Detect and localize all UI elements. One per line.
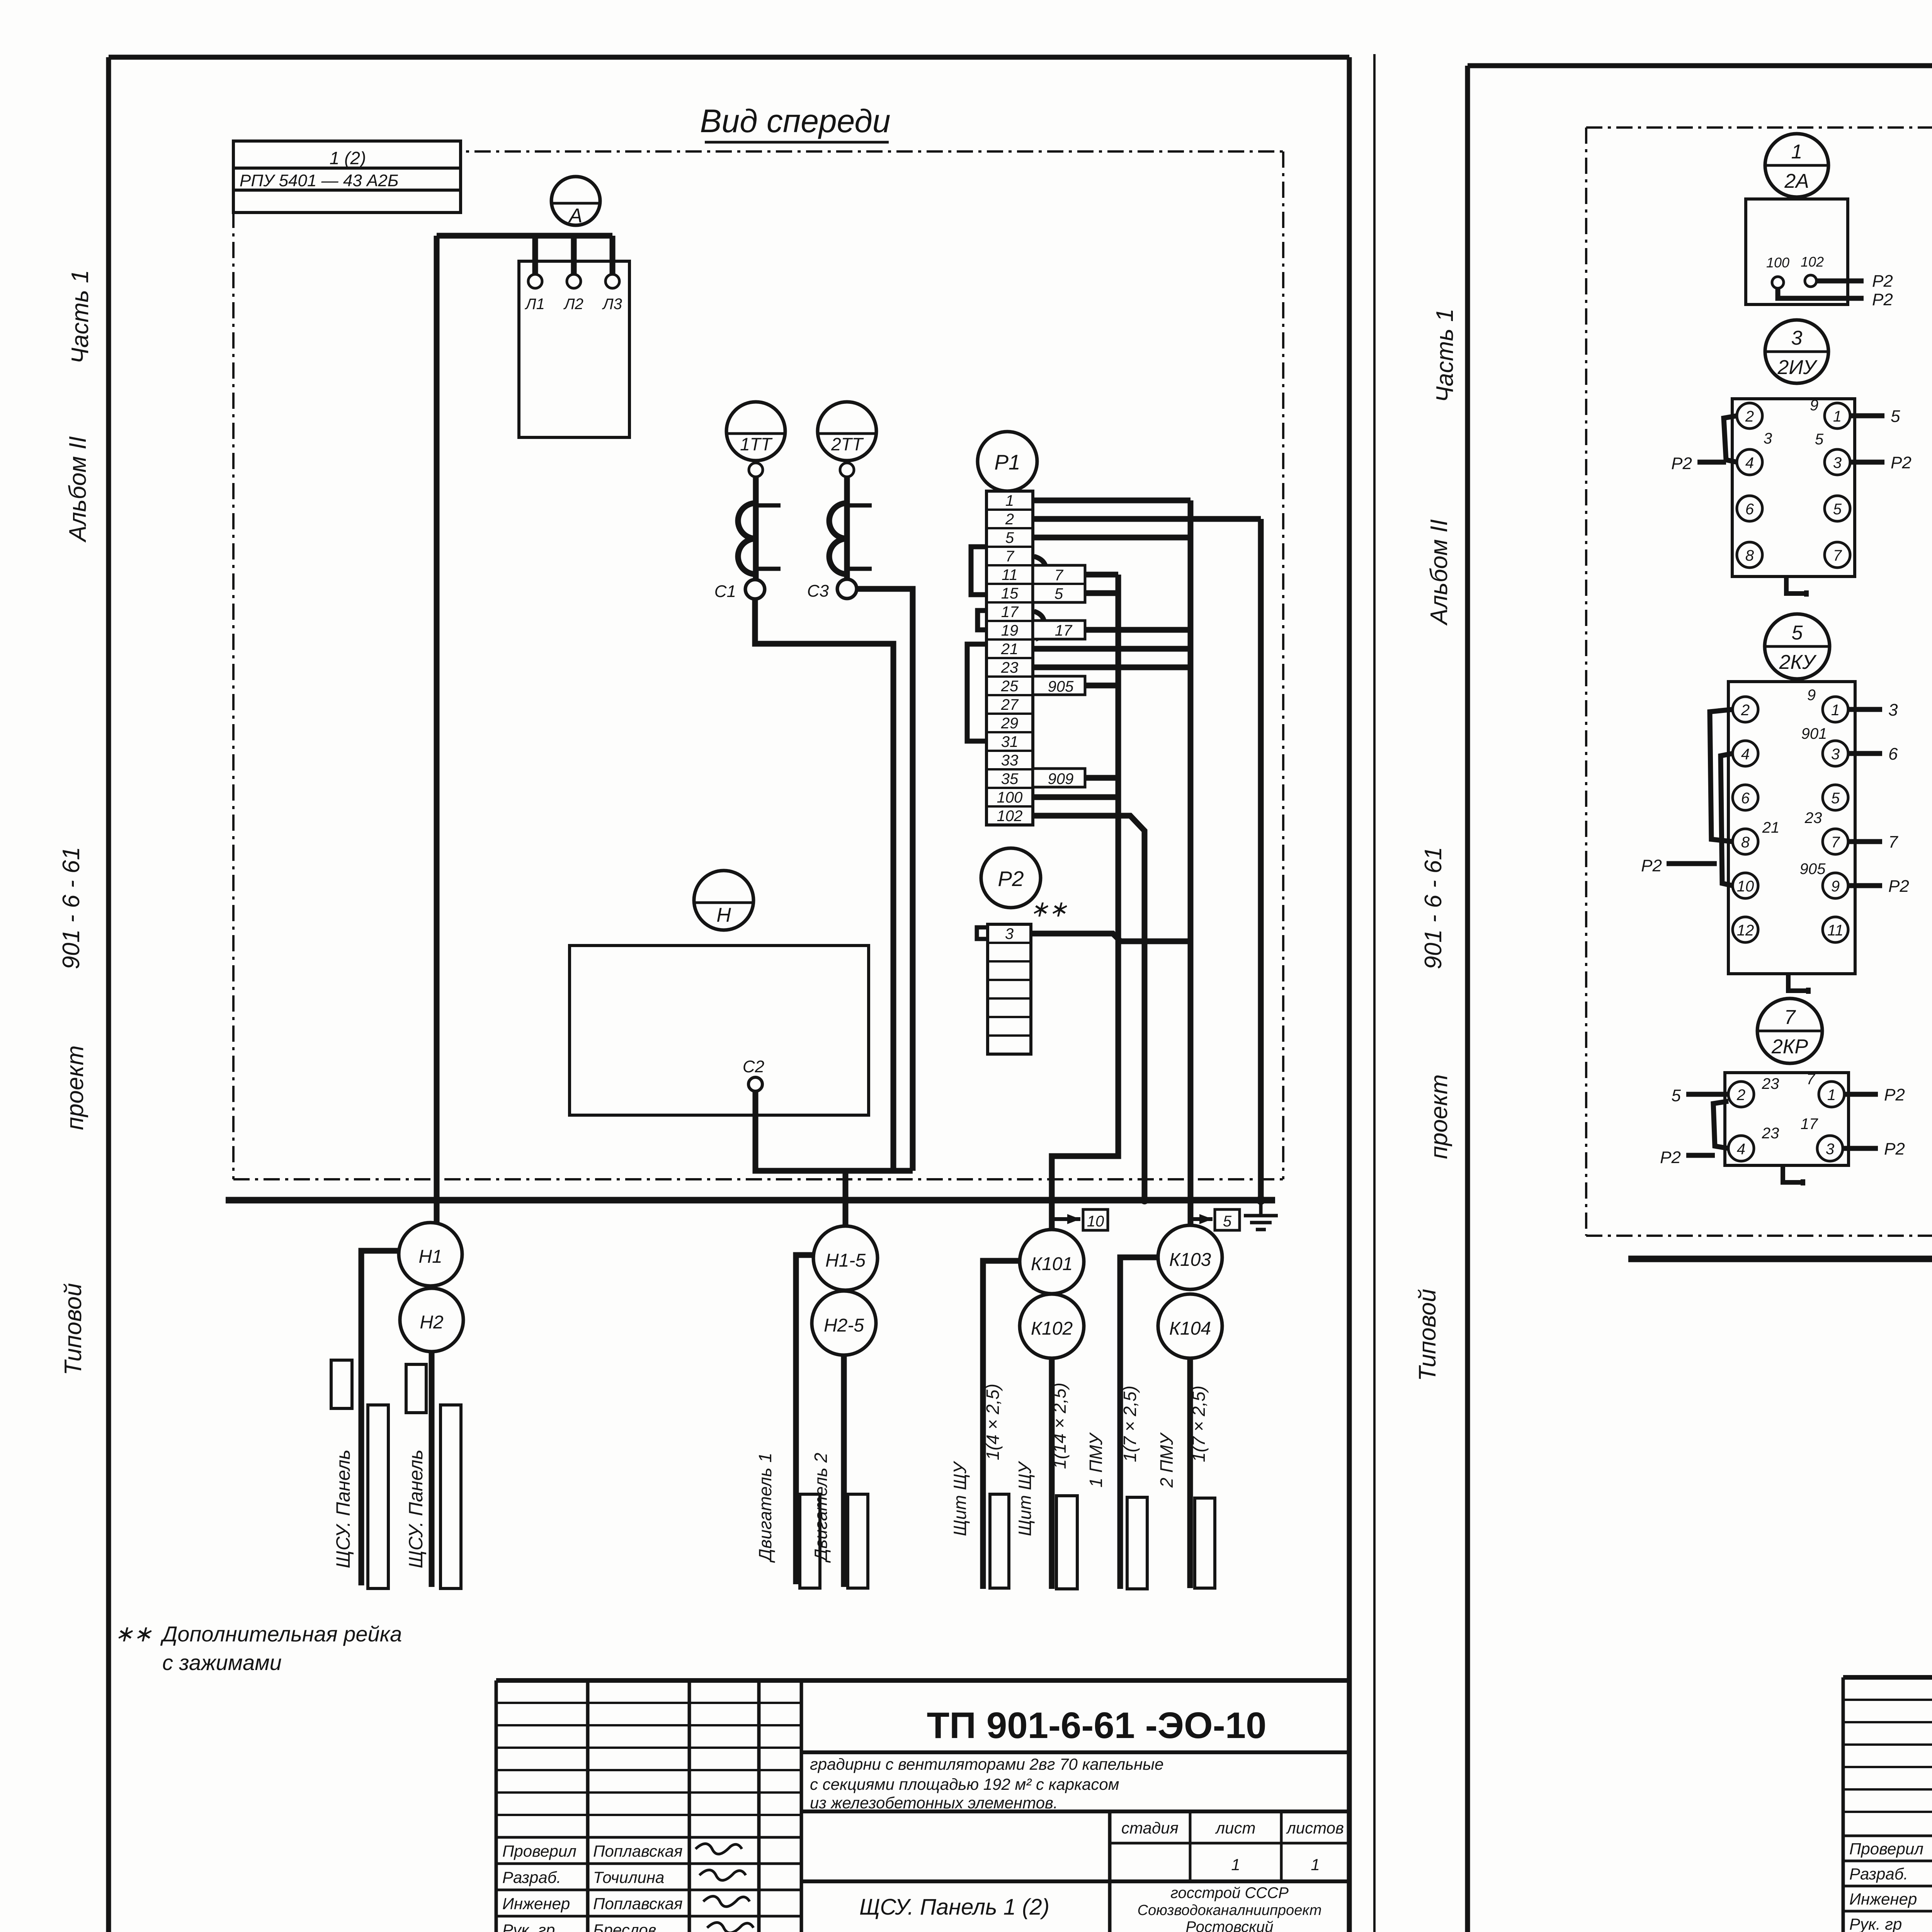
svg-text:33: 33 xyxy=(1001,752,1019,769)
svg-text:6: 6 xyxy=(1745,501,1754,518)
pos.1 ammeter 2А xyxy=(1765,134,1828,197)
svg-text:Р2: Р2 xyxy=(1872,272,1893,291)
svg-text:Н2: Н2 xyxy=(420,1312,443,1333)
svg-text:К102: К102 xyxy=(1031,1318,1073,1339)
svg-text:Разраб.: Разраб. xyxy=(1849,1865,1908,1883)
ammeter A xyxy=(551,177,600,225)
terminal strip Р2 (7 rows) xyxy=(988,924,1031,1054)
svg-text:Р2: Р2 xyxy=(1872,290,1893,309)
relay Р2 circle xyxy=(981,848,1041,908)
svg-text:Р2: Р2 xyxy=(998,867,1024,891)
svg-text:Р2: Р2 xyxy=(1660,1148,1681,1167)
svg-text:ТП 901-6-61 -ЭО-10: ТП 901-6-61 -ЭО-10 xyxy=(927,1705,1267,1746)
svg-text:3: 3 xyxy=(1764,430,1772,447)
svg-text:8: 8 xyxy=(1741,834,1750,851)
svg-text:Часть 1: Часть 1 xyxy=(67,270,94,364)
svg-text:Вид спереди: Вид спереди xyxy=(700,103,890,139)
svg-text:Проверил: Проверил xyxy=(502,1842,577,1860)
description box xyxy=(801,1810,1349,1813)
wire box17 xyxy=(1085,627,1190,633)
svg-text:2: 2 xyxy=(1005,511,1014,528)
svg-text:Р1: Р1 xyxy=(994,450,1020,474)
svg-text:∗∗: ∗∗ xyxy=(1030,896,1067,922)
wire К101 cable xyxy=(983,1261,1020,1589)
box of pos.5 xyxy=(1728,682,1855,974)
svg-text:23: 23 xyxy=(1762,1075,1779,1092)
svg-text:1(7 × 2,5): 1(7 × 2,5) xyxy=(1189,1386,1209,1462)
svg-text:7: 7 xyxy=(1054,567,1064,584)
svg-text:Щит ЩУ: Щит ЩУ xyxy=(1015,1461,1035,1536)
svg-text:35: 35 xyxy=(1001,770,1019,787)
wire row21 xyxy=(1033,646,1190,652)
title block (left sheet) xyxy=(496,1678,1349,1683)
svg-text:С1: С1 xyxy=(714,582,736,601)
svg-text:5: 5 xyxy=(1891,407,1900,426)
svg-text:7: 7 xyxy=(1888,833,1898,852)
svg-text:7: 7 xyxy=(1831,834,1840,851)
svg-text:Типовой: Типовой xyxy=(60,1283,87,1376)
svg-text:3: 3 xyxy=(1005,925,1014,942)
wire row2 xyxy=(1033,516,1261,522)
svg-text:Альбом II: Альбом II xyxy=(65,436,91,543)
svg-text:1: 1 xyxy=(1311,1855,1320,1874)
svg-text:Поплавская: Поплавская xyxy=(593,1842,683,1860)
svg-text:Рук. гр: Рук. гр xyxy=(1849,1915,1902,1932)
svg-text:Н2-5: Н2-5 xyxy=(824,1315,864,1336)
svg-text:17: 17 xyxy=(1801,1116,1818,1133)
wire Н2 cable xyxy=(429,1352,435,1587)
terminal С3 xyxy=(837,579,857,599)
wire box5 xyxy=(1085,590,1118,596)
svg-text:5: 5 xyxy=(1672,1086,1681,1105)
wire from Р2 row3 xyxy=(1031,934,1190,941)
wire К103 cable xyxy=(1120,1257,1158,1589)
svg-text:905: 905 xyxy=(1048,678,1074,695)
wire К104 cable xyxy=(1187,1358,1193,1588)
svg-text:лист: лист xyxy=(1214,1819,1255,1837)
relay Р1 circle xyxy=(978,432,1037,491)
svg-text:1: 1 xyxy=(1831,702,1840,719)
svg-text:Р2: Р2 xyxy=(1884,1139,1905,1158)
wire from С3 xyxy=(857,589,913,1171)
svg-text:4: 4 xyxy=(1745,454,1754,471)
svg-text:21: 21 xyxy=(1762,819,1780,836)
svg-text:Разраб.: Разраб. xyxy=(502,1868,561,1886)
svg-text:А: А xyxy=(568,204,583,227)
svg-text:Р2: Р2 xyxy=(1888,877,1909,896)
svg-text:19: 19 xyxy=(1001,622,1019,639)
arrow box 10 xyxy=(1052,1217,1080,1221)
svg-text:7: 7 xyxy=(1005,548,1015,565)
svg-text:Рук. гр: Рук. гр xyxy=(502,1921,555,1932)
riser row2 to ground xyxy=(1258,519,1264,1200)
current transformer 1ТТ xyxy=(726,402,785,461)
panel outline (dash-dot) left sheet xyxy=(233,150,1283,153)
svg-text:2ИУ: 2ИУ xyxy=(1777,356,1818,379)
svg-text:Щит ЩУ: Щит ЩУ xyxy=(950,1461,970,1536)
svg-text:1 (2): 1 (2) xyxy=(330,148,366,168)
svg-text:3: 3 xyxy=(1826,1141,1834,1158)
riser to К101 xyxy=(1052,575,1118,1230)
svg-text:1(4 × 2,5): 1(4 × 2,5) xyxy=(983,1384,1003,1460)
svg-text:Проверил: Проверил xyxy=(1849,1840,1923,1858)
current transformer 2ТТ xyxy=(818,402,876,461)
svg-text:С2: С2 xyxy=(743,1057,764,1076)
wire row102 riser xyxy=(1033,816,1145,1200)
svg-text:102: 102 xyxy=(997,808,1023,825)
svg-text:5: 5 xyxy=(1223,1213,1232,1230)
svg-text:Л3: Л3 xyxy=(602,296,622,313)
svg-text:2КР: 2КР xyxy=(1771,1036,1808,1058)
svg-text:5: 5 xyxy=(1833,501,1842,518)
svg-text:Р2: Р2 xyxy=(1671,454,1692,473)
svg-text:9: 9 xyxy=(1831,878,1840,895)
svg-text:3: 3 xyxy=(1888,701,1898,719)
wire: long drop to Н1 xyxy=(434,236,440,1223)
svg-text:Типовой: Типовой xyxy=(1414,1289,1441,1381)
svg-text:Ростовский: Ростовский xyxy=(1186,1918,1274,1932)
svg-text:10: 10 xyxy=(1737,878,1754,895)
jumper marks right of strip xyxy=(1034,556,1046,589)
svg-text:15: 15 xyxy=(1001,585,1019,602)
svg-text:Часть 1: Часть 1 xyxy=(1432,308,1458,402)
svg-text:901 - 6 - 61: 901 - 6 - 61 xyxy=(1420,847,1447,969)
hook left of Р2 strip xyxy=(977,927,988,939)
svg-text:Инженер: Инженер xyxy=(1849,1890,1917,1908)
svg-text:1: 1 xyxy=(1791,141,1803,163)
svg-text:5: 5 xyxy=(1831,790,1840,807)
svg-text:госстрой СССР: госстрой СССР xyxy=(1170,1884,1289,1901)
junction at ground xyxy=(1257,1196,1265,1204)
page edge line between sheets xyxy=(1373,54,1376,1932)
svg-text:100: 100 xyxy=(1766,255,1789,270)
wire from С1 xyxy=(755,599,893,1171)
svg-text:Инженер: Инженер xyxy=(502,1895,570,1913)
svg-text:Л2: Л2 xyxy=(563,296,583,313)
box of pos.7 xyxy=(1725,1073,1849,1165)
svg-text:6: 6 xyxy=(1741,790,1750,807)
svg-text:11: 11 xyxy=(1002,566,1018,583)
svg-text:Н1-5: Н1-5 xyxy=(825,1250,866,1271)
svg-text:901 - 6 - 61: 901 - 6 - 61 xyxy=(58,847,85,969)
svg-text:Дополнительная рейка: Дополнительная рейка xyxy=(160,1622,402,1646)
right sheet frame xyxy=(1465,66,1470,1932)
svg-text:1ТТ: 1ТТ xyxy=(740,434,773,454)
svg-text:9: 9 xyxy=(1810,397,1818,414)
svg-text:31: 31 xyxy=(1001,733,1019,750)
svg-text:проект: проект xyxy=(1426,1074,1452,1159)
svg-text:7: 7 xyxy=(1784,1006,1796,1029)
svg-text:2: 2 xyxy=(1736,1087,1745,1104)
svg-text:4: 4 xyxy=(1741,746,1750,763)
svg-text:Бреслов: Бреслов xyxy=(593,1921,656,1932)
svg-text:1: 1 xyxy=(1231,1855,1240,1874)
wire Н2-5 cable xyxy=(841,1355,847,1587)
box of pos.3 xyxy=(1732,399,1855,577)
svg-text:ЩСУ. Панель: ЩСУ. Панель xyxy=(405,1449,427,1568)
wire from С2 xyxy=(755,1091,913,1171)
svg-text:1: 1 xyxy=(1005,492,1014,509)
arrow box 5 xyxy=(1190,1217,1213,1221)
svg-text:ЩСУ. Панель: ЩСУ. Панель xyxy=(332,1449,354,1568)
svg-text:стадия: стадия xyxy=(1121,1819,1179,1837)
starter circles bottom left xyxy=(399,1223,462,1286)
terminal С2 xyxy=(748,1077,762,1091)
svg-text:Поплавская: Поплавская xyxy=(593,1895,683,1913)
svg-text:Р2: Р2 xyxy=(1891,453,1912,472)
svg-text:1: 1 xyxy=(1827,1087,1836,1104)
svg-text:1: 1 xyxy=(1833,408,1842,425)
wire box909 xyxy=(1085,775,1118,781)
jumper brackets left of strip Р1 xyxy=(971,547,986,595)
junction xyxy=(1140,1196,1149,1204)
svg-text:8: 8 xyxy=(1745,547,1754,564)
indicator H xyxy=(694,871,753,930)
wire row1 xyxy=(1033,498,1190,503)
svg-text:2КУ: 2КУ xyxy=(1779,651,1817,673)
svg-text:из железобетонных элементов.: из железобетонных элементов. xyxy=(810,1794,1058,1812)
wire from ammeter terminals xyxy=(437,233,612,239)
wire Н1-5 cable xyxy=(796,1255,813,1584)
svg-text:909: 909 xyxy=(1048,770,1074,787)
svg-text:100: 100 xyxy=(997,789,1023,806)
wire row5 xyxy=(1033,535,1190,541)
device box H xyxy=(570,946,869,1115)
svg-text:градирни с вентиляторами 2в: градирни с вентиляторами 2вг 70 капельны… xyxy=(810,1755,1164,1773)
svg-text:17: 17 xyxy=(1001,604,1019,621)
svg-text:Р2: Р2 xyxy=(1641,856,1662,875)
svg-text:17: 17 xyxy=(1055,622,1073,639)
svg-text:23: 23 xyxy=(1762,1125,1779,1142)
svg-text:Союзводоканалниипроект: Союзводоканалниипроект xyxy=(1138,1902,1322,1918)
svg-text:23: 23 xyxy=(1804,810,1822,827)
svg-text:5: 5 xyxy=(1005,529,1014,546)
svg-text:Двигатель 2: Двигатель 2 xyxy=(811,1453,831,1563)
svg-text:5: 5 xyxy=(1815,431,1824,448)
svg-text:3: 3 xyxy=(1833,454,1842,471)
wire box7 xyxy=(1085,572,1118,578)
null bus (right sheet) Шина нулевая xyxy=(1628,1256,1932,1262)
svg-text:Р2: Р2 xyxy=(1884,1085,1905,1104)
big document number xyxy=(801,1750,1349,1754)
terminal box Л1 Л2 Л3 xyxy=(519,261,629,437)
svg-text:проект: проект xyxy=(62,1045,88,1130)
svg-text:1 ПМУ: 1 ПМУ xyxy=(1086,1432,1106,1488)
box of pos.1 xyxy=(1746,199,1848,304)
svg-text:25: 25 xyxy=(1001,678,1019,695)
wire К102 cable xyxy=(1049,1358,1055,1589)
svg-text:27: 27 xyxy=(1001,696,1019,713)
svg-text:11: 11 xyxy=(1827,922,1844,939)
svg-text:1(14 × 2,5): 1(14 × 2,5) xyxy=(1049,1383,1070,1469)
left sheet frame xyxy=(106,57,111,1932)
svg-text:с секциями площадью 192 м²: с секциями площадью 192 м² с каркасом xyxy=(810,1775,1119,1793)
svg-text:РПУ 5401 — 43 А2Б: РПУ 5401 — 43 А2Б xyxy=(240,171,399,190)
riser to К103 xyxy=(1188,500,1194,1225)
svg-text:5: 5 xyxy=(1054,585,1063,602)
svg-text:Л1: Л1 xyxy=(524,296,545,313)
title block (right sheet) xyxy=(1843,1675,1932,1680)
wire Н1 cable xyxy=(361,1251,399,1585)
svg-text:2А: 2А xyxy=(1784,170,1809,192)
svg-text:1(7 × 2,5): 1(7 × 2,5) xyxy=(1120,1386,1140,1462)
svg-text:5: 5 xyxy=(1792,622,1803,644)
cable marker rectangles xyxy=(331,1360,352,1408)
terminal С1 xyxy=(745,580,765,599)
svg-text:К101: К101 xyxy=(1031,1254,1073,1274)
svg-text:10: 10 xyxy=(1087,1213,1104,1230)
ground symbol xyxy=(1256,1196,1265,1205)
svg-text:К104: К104 xyxy=(1169,1318,1211,1339)
wire row23 xyxy=(1033,665,1190,670)
svg-text:102: 102 xyxy=(1801,254,1824,270)
svg-text:Двигатель 1: Двигатель 1 xyxy=(755,1453,775,1563)
svg-text:2: 2 xyxy=(1745,408,1754,425)
side label boxes (7/5, 17, 905, 909) xyxy=(1033,565,1085,602)
svg-text:2ТТ: 2ТТ xyxy=(831,434,864,454)
svg-text:905: 905 xyxy=(1800,861,1826,878)
svg-text:3: 3 xyxy=(1831,746,1840,763)
svg-text:7: 7 xyxy=(1833,547,1842,564)
svg-text:9: 9 xyxy=(1807,687,1816,704)
svg-text:6: 6 xyxy=(1888,745,1898,764)
svg-text:23: 23 xyxy=(1001,659,1019,676)
svg-text:Альбом II: Альбом II xyxy=(1426,519,1452,626)
svg-text:4: 4 xyxy=(1737,1141,1745,1158)
svg-text:2 ПМУ: 2 ПМУ xyxy=(1156,1432,1177,1488)
svg-text:С3: С3 xyxy=(807,582,829,600)
svg-text:901: 901 xyxy=(1801,725,1827,742)
nameplate table РПУ 5401-43 А2Б xyxy=(233,141,461,213)
panel outline (dash-dot) right sheet xyxy=(1586,126,1932,129)
svg-text:ЩСУ. Панель 1 (2): ЩСУ. Панель 1 (2) xyxy=(859,1895,1049,1920)
svg-text:21: 21 xyxy=(1001,641,1019,658)
wire box905 xyxy=(1085,683,1118,689)
svg-text:К103: К103 xyxy=(1169,1250,1211,1270)
drop to Н1-5 xyxy=(843,1171,849,1226)
svg-text:12: 12 xyxy=(1737,922,1754,939)
svg-text:с зажимами: с зажимами xyxy=(162,1650,282,1675)
svg-text:Точилина: Точилина xyxy=(593,1868,664,1886)
svg-text:Н1: Н1 xyxy=(418,1247,442,1267)
terminal strip Р1 (18 rows) xyxy=(986,491,1033,825)
стадия/лист/листов xyxy=(1108,1811,1112,1881)
wire row100 xyxy=(1033,794,1118,800)
svg-text:7: 7 xyxy=(1806,1071,1816,1088)
null bus (left sheet) xyxy=(226,1197,1275,1204)
svg-text:29: 29 xyxy=(1001,715,1019,732)
svg-text:листов: листов xyxy=(1286,1819,1344,1837)
svg-text:2: 2 xyxy=(1741,702,1750,719)
svg-text:∗∗: ∗∗ xyxy=(114,1621,152,1646)
svg-text:3: 3 xyxy=(1791,327,1803,349)
svg-text:Н: Н xyxy=(716,904,731,926)
